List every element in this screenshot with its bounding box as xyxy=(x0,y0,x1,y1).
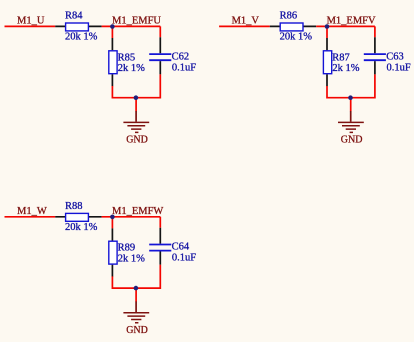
svg-text:C63: C63 xyxy=(386,51,404,62)
svg-text:2k 1%: 2k 1% xyxy=(118,254,145,265)
svg-text:0.1uF: 0.1uF xyxy=(172,253,196,264)
svg-text:GND: GND xyxy=(126,134,148,145)
svg-text:C64: C64 xyxy=(172,242,190,253)
svg-text:GND: GND xyxy=(126,325,148,336)
svg-text:M1_EMFU: M1_EMFU xyxy=(112,16,161,27)
svg-text:R84: R84 xyxy=(65,11,83,22)
svg-text:M1_U: M1_U xyxy=(17,16,45,27)
svg-text:M1_W: M1_W xyxy=(17,206,47,217)
svg-text:R87: R87 xyxy=(332,52,350,63)
svg-text:R85: R85 xyxy=(118,52,136,63)
svg-text:2k 1%: 2k 1% xyxy=(332,63,359,74)
svg-text:2k 1%: 2k 1% xyxy=(118,63,145,74)
svg-text:M1_EMFV: M1_EMFV xyxy=(327,16,376,27)
svg-text:R86: R86 xyxy=(280,11,298,22)
svg-text:GND: GND xyxy=(341,134,363,145)
svg-text:C62: C62 xyxy=(172,51,190,62)
svg-text:R89: R89 xyxy=(118,243,136,254)
svg-text:0.1uF: 0.1uF xyxy=(172,62,196,73)
svg-text:20k 1%: 20k 1% xyxy=(65,32,98,43)
svg-text:M1_V: M1_V xyxy=(232,16,260,27)
svg-text:20k 1%: 20k 1% xyxy=(280,32,313,43)
svg-text:R88: R88 xyxy=(65,201,83,212)
svg-text:0.1uF: 0.1uF xyxy=(387,62,411,73)
svg-text:M1_EMFW: M1_EMFW xyxy=(112,206,163,217)
svg-text:20k 1%: 20k 1% xyxy=(65,222,98,233)
